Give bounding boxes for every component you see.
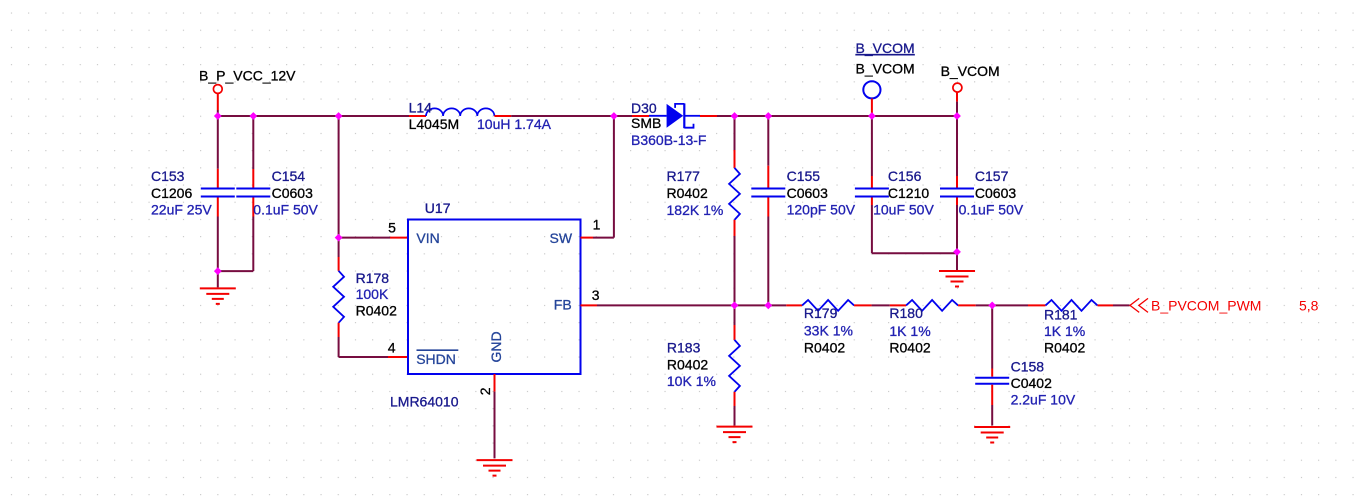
pin 1 SW stub <box>581 237 594 239</box>
svg-text:R180: R180 <box>889 305 923 321</box>
ground (C153/C154) <box>200 288 236 304</box>
svg-text:0.1uF 50V: 0.1uF 50V <box>959 201 1024 217</box>
svg-text:R0402: R0402 <box>804 340 845 356</box>
ground (C156/C157) <box>939 271 975 287</box>
ground (U17 GND) <box>477 460 513 476</box>
svg-text:33K 1%: 33K 1% <box>804 322 853 338</box>
wire R180 to node <box>976 304 1028 306</box>
wire to ground (C156/C157) <box>956 253 958 270</box>
capacitor C157 <box>940 116 1024 253</box>
wire R178 to SHDN <box>338 337 340 357</box>
svg-text:R181: R181 <box>1044 307 1078 323</box>
svg-text:B_VCOM: B_VCOM <box>941 63 1000 79</box>
svg-text:R0402: R0402 <box>667 185 708 201</box>
svg-text:D30: D30 <box>631 100 657 116</box>
wire C153-C154 bottom <box>218 270 254 272</box>
junction node C158 <box>988 302 996 310</box>
pin 2 GND stub <box>494 374 496 392</box>
svg-text:U17: U17 <box>425 200 451 216</box>
svg-text:R179: R179 <box>804 305 838 321</box>
svg-text:1K 1%: 1K 1% <box>889 323 930 339</box>
svg-text:C154: C154 <box>272 168 306 184</box>
capacitor C158 <box>975 305 1076 425</box>
junction node rail-R177 <box>731 112 739 120</box>
resistor R179 <box>786 300 871 356</box>
svg-text:C0402: C0402 <box>1011 375 1052 391</box>
svg-text:L4045M: L4045M <box>409 116 460 132</box>
port B_VCOM circle <box>856 40 915 116</box>
svg-text:10uH 1.74A: 10uH 1.74A <box>477 116 552 132</box>
svg-text:L14: L14 <box>409 99 433 115</box>
svg-text:C153: C153 <box>151 168 185 184</box>
wire VIN <box>339 237 390 239</box>
junction node rail-C157 <box>953 112 961 120</box>
pin 3 FB stub <box>581 304 598 306</box>
svg-text:3: 3 <box>592 287 600 303</box>
junction node rail-SW <box>610 112 618 120</box>
wire C156-C157 bottom <box>872 252 957 254</box>
power terminal B_P_VCC_12V <box>199 67 296 110</box>
svg-text:R0402: R0402 <box>889 340 930 356</box>
svg-text:120pF 50V: 120pF 50V <box>787 201 856 217</box>
svg-text:SW: SW <box>550 230 573 246</box>
svg-text:R0402: R0402 <box>667 356 708 372</box>
junction node VIN-R178 <box>335 234 343 242</box>
wire to ground 1 <box>217 271 219 287</box>
svg-text:22uF 25V: 22uF 25V <box>151 201 212 217</box>
diode D30 <box>631 100 717 148</box>
wire rail middle <box>511 115 632 117</box>
svg-text:VIN: VIN <box>416 230 439 246</box>
resistor R183 <box>667 305 740 425</box>
svg-text:4: 4 <box>388 340 396 356</box>
resistor R181 <box>1028 300 1113 356</box>
svg-text:10K 1%: 10K 1% <box>667 373 716 389</box>
svg-text:C158: C158 <box>1011 359 1045 375</box>
svg-text:R0402: R0402 <box>356 303 397 319</box>
svg-text:C156: C156 <box>888 168 922 184</box>
capacitor C153 <box>151 116 235 271</box>
svg-text:B_VCOM: B_VCOM <box>856 60 915 76</box>
svg-text:LMR64010: LMR64010 <box>390 394 459 410</box>
off-page terminal B_VCOM right <box>941 63 1000 116</box>
svg-text:2.2uF 10V: 2.2uF 10V <box>1011 392 1076 408</box>
junction node rail-B_VCOM <box>868 112 876 120</box>
svg-text:1K 1%: 1K 1% <box>1044 323 1085 339</box>
ground (R183) <box>717 427 753 443</box>
pin 5 VIN stub <box>390 237 408 239</box>
capacitor C154 <box>236 116 318 271</box>
wire main rail left <box>218 115 409 117</box>
svg-text:C1206: C1206 <box>151 185 192 201</box>
wire rail right <box>717 115 957 117</box>
svg-text:R0402: R0402 <box>1044 340 1085 356</box>
svg-text:1: 1 <box>593 216 601 232</box>
junction node rail-terminal <box>214 112 222 120</box>
junction node FB-R183 <box>731 302 739 310</box>
svg-text:B_P_VCC_12V: B_P_VCC_12V <box>199 67 296 83</box>
wire SW riser <box>613 116 615 238</box>
wire rail to VIN drop <box>338 116 340 238</box>
svg-text:B_PVCOM_PWM: B_PVCOM_PWM <box>1151 297 1261 313</box>
svg-text:B360B-13-F: B360B-13-F <box>631 132 706 148</box>
wire SW to riser <box>593 237 614 239</box>
svg-text:R178: R178 <box>356 270 390 286</box>
svg-text:C0603: C0603 <box>787 185 828 201</box>
svg-text:C0603: C0603 <box>975 185 1016 201</box>
capacitor C156 <box>855 116 935 253</box>
resistor R180 <box>889 300 975 356</box>
svg-text:SMB: SMB <box>631 115 661 131</box>
svg-text:GND: GND <box>488 331 504 362</box>
svg-text:182K 1%: 182K 1% <box>667 202 724 218</box>
resistor R178 <box>333 238 397 337</box>
junction node C157 bottom <box>953 248 961 256</box>
junction node rail-VIN <box>335 112 343 120</box>
wire GND down <box>494 392 496 459</box>
svg-text:5: 5 <box>388 219 396 235</box>
wire terminal to rail <box>217 110 219 116</box>
junction node rail-C155 <box>764 112 772 120</box>
svg-text:R183: R183 <box>667 340 701 356</box>
junction node C153 bottom <box>214 267 222 275</box>
inductor L14 <box>409 99 552 132</box>
ground (C158) <box>974 427 1010 443</box>
svg-text:FB: FB <box>554 297 572 313</box>
op-amp U1 / IC U17 box <box>390 200 581 410</box>
wire FB <box>597 304 786 306</box>
svg-text:5,8: 5,8 <box>1299 297 1319 313</box>
svg-text:SHDN: SHDN <box>416 351 456 367</box>
off-page connector B_PVCOM_PWM <box>1130 297 1261 313</box>
svg-text:R177: R177 <box>667 168 701 184</box>
svg-text:C157: C157 <box>975 168 1009 184</box>
svg-text:C1210: C1210 <box>888 185 929 201</box>
wire R179-R180 <box>872 304 890 306</box>
resistor R177 <box>667 116 740 305</box>
svg-text:10uF 50V: 10uF 50V <box>873 201 934 217</box>
svg-text:0.1uF 50V: 0.1uF 50V <box>253 201 318 217</box>
capacitor C155 <box>751 116 855 305</box>
svg-text:B_VCOM: B_VCOM <box>856 40 915 56</box>
wire R181 to connector <box>1113 304 1130 306</box>
junction node FB-C155 <box>764 302 772 310</box>
svg-text:C0603: C0603 <box>272 185 313 201</box>
svg-text:2: 2 <box>477 387 493 395</box>
pin 4 SHDN stub <box>388 356 408 358</box>
svg-text:100K: 100K <box>356 286 389 302</box>
svg-text:C155: C155 <box>787 168 821 184</box>
junction node rail-C154 <box>249 112 257 120</box>
